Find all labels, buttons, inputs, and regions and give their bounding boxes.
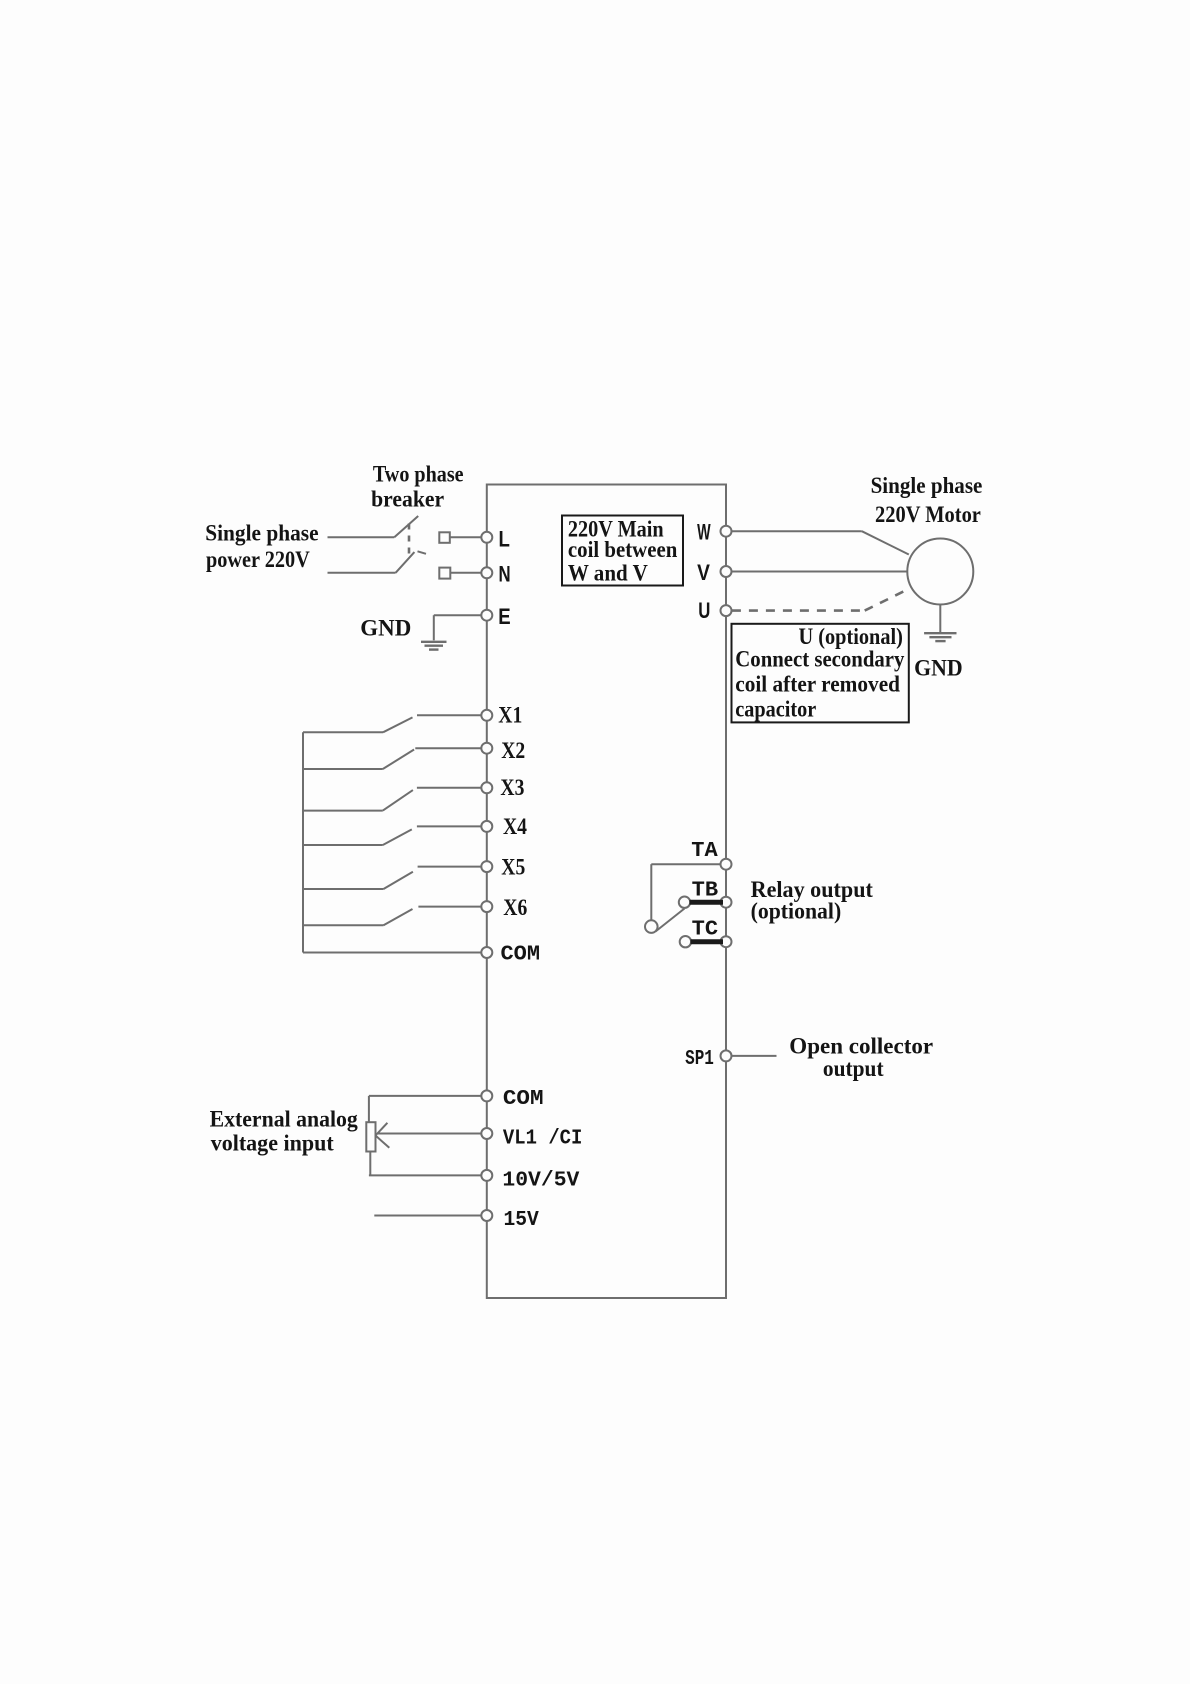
svg-text:N: N	[499, 562, 511, 587]
svg-text:X1: X1	[498, 703, 522, 728]
svg-text:output: output	[823, 1056, 884, 1081]
svg-text:TA: TA	[691, 840, 718, 863]
svg-text:SP1: SP1	[685, 1048, 714, 1071]
svg-text:GND: GND	[360, 615, 411, 640]
svg-text:X6: X6	[503, 895, 527, 920]
svg-text:power 220V: power 220V	[206, 547, 310, 572]
svg-text:X5: X5	[501, 855, 525, 880]
svg-text:W and V: W and V	[568, 561, 648, 586]
svg-text:W: W	[697, 520, 711, 545]
svg-text:VL1 /CI: VL1 /CI	[503, 1128, 583, 1151]
svg-text:X4: X4	[503, 814, 527, 839]
svg-text:(optional): (optional)	[751, 899, 842, 924]
svg-text:COM: COM	[503, 1088, 544, 1111]
svg-text:220V Motor: 220V Motor	[875, 502, 981, 527]
svg-text:V: V	[697, 560, 710, 585]
svg-text:TB: TB	[692, 880, 719, 903]
svg-text:E: E	[498, 604, 510, 629]
svg-text:U (optional): U (optional)	[799, 624, 903, 649]
svg-text:External analog: External analog	[210, 1107, 359, 1132]
svg-text:TC: TC	[692, 919, 719, 942]
svg-text:Connect secondary: Connect secondary	[735, 647, 905, 672]
svg-text:Two phase: Two phase	[373, 462, 464, 487]
svg-text:COM: COM	[501, 944, 541, 967]
svg-text:GND: GND	[914, 655, 963, 680]
svg-text:capacitor: capacitor	[735, 697, 816, 722]
svg-text:L: L	[499, 526, 510, 551]
svg-text:coil after removed: coil after removed	[735, 672, 900, 697]
svg-text:X2: X2	[501, 738, 525, 763]
svg-text:Single phase: Single phase	[205, 521, 318, 546]
svg-text:15V: 15V	[504, 1209, 540, 1232]
svg-text:coil between: coil between	[568, 537, 678, 562]
svg-text:breaker: breaker	[371, 487, 444, 512]
svg-text:X3: X3	[500, 775, 524, 800]
svg-text:Single phase: Single phase	[871, 473, 983, 498]
svg-text:voltage input: voltage input	[211, 1131, 334, 1156]
svg-text:Open collector: Open collector	[789, 1034, 933, 1059]
svg-text:10V/5V: 10V/5V	[502, 1170, 579, 1193]
svg-text:U: U	[698, 598, 710, 623]
